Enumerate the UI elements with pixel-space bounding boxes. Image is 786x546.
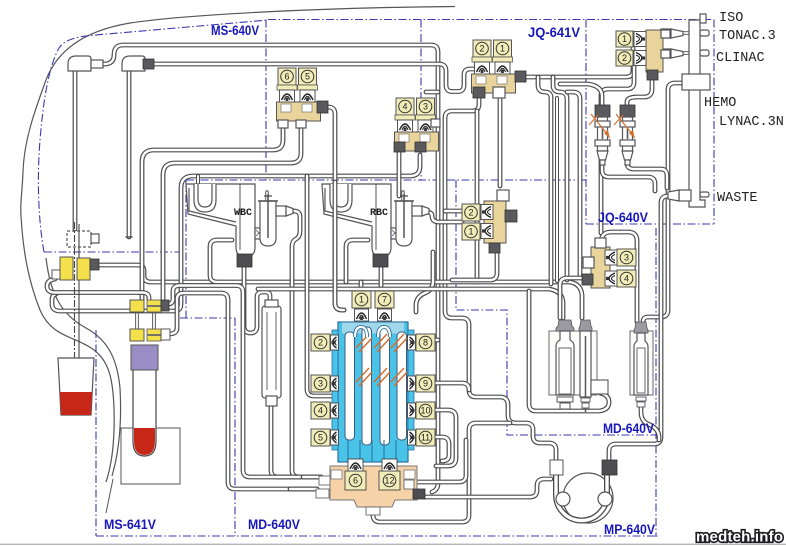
wire JQ641 drop to run282 (475, 111, 480, 282)
MD-640V manifold blue block (338, 322, 408, 462)
MD valve 8 (416, 334, 435, 351)
wire elbow1 down to carriage (73, 71, 78, 229)
elbow fitting E1 (68, 56, 91, 71)
svg-text:6: 6 (353, 476, 358, 486)
metering loops (355, 327, 367, 337)
svg-text:medteh.info: medteh.info (696, 529, 783, 546)
wire bundle b (567, 92, 580, 275)
test tube (133, 369, 156, 456)
syringe A (556, 320, 574, 331)
sample fitting yellow (52, 270, 61, 279)
wire sample connector to run282 (98, 265, 210, 282)
pump right connector (602, 460, 617, 475)
wire stub into WBC chamber top (196, 176, 200, 185)
white metering slots (345, 332, 355, 440)
CLINAC stub (700, 50, 709, 56)
sample probe line (74, 222, 76, 408)
group box MD-640V (186, 179, 586, 181)
WBC drain connector (237, 254, 252, 267)
wire WBC feed run282 (210, 240, 582, 318)
valve65 side connector (317, 101, 328, 113)
wire valve65 port1 to MS641 fitting1 (142, 125, 283, 300)
wire valve8 stub (431, 338, 438, 343)
wire valve1 top feed (359, 282, 364, 291)
WASTE fitting (679, 190, 691, 201)
MD valve 7 (375, 291, 394, 308)
wire top run 2 into JQ641 valve (153, 64, 474, 92)
wire CLINAC feed (663, 51, 690, 55)
tube cap purple (131, 345, 158, 370)
MD valve 5 (311, 429, 330, 446)
RBC counting chamber (322, 184, 391, 256)
solenoid valve pair JQ-640V 1/2 (646, 30, 663, 72)
probe carriage dashed (67, 231, 91, 247)
svg-text:JQ-641V: JQ-641V (528, 25, 580, 40)
wire bundle d (555, 98, 559, 281)
RBC transfer port (391, 228, 400, 239)
wire JQ640 valve34 top to valve2 (601, 56, 646, 233)
wire RBC drain to valve7 (379, 267, 384, 290)
svg-text:3: 3 (318, 379, 323, 389)
wire valve65 port2 to MS641 fitting1 (163, 125, 301, 300)
svg-text:1: 1 (622, 34, 627, 44)
wire base to pump (424, 479, 551, 497)
wire valve65 connector down to MD block (327, 107, 344, 310)
MD valve 6 (345, 471, 366, 490)
WBC mixing cylinder (260, 201, 276, 246)
CLINAC fitting (661, 49, 671, 58)
svg-text:MP-640V: MP-640V (604, 522, 655, 537)
single syringe (634, 322, 648, 333)
svg-text:7: 7 (382, 295, 387, 305)
filter F2 (620, 105, 635, 117)
RBC mixing cylinder (396, 201, 412, 246)
solenoid valve pair JQ-641V 2/1 (473, 40, 491, 57)
wire cylinder drain (271, 406, 300, 477)
svg-text:3: 3 (624, 253, 629, 263)
wire valve10 loop (431, 410, 456, 466)
wire sample loop to fitting1 (47, 279, 149, 300)
wire base tab line up (415, 440, 466, 482)
pump roller right (598, 492, 612, 506)
svg-text:4: 4 (624, 274, 629, 284)
wire waste line down to pump right (609, 196, 668, 461)
machine cover outline curve (21, 7, 455, 483)
HEMO fitting (682, 74, 710, 90)
WASTE stub (700, 192, 709, 197)
svg-text:3: 3 (423, 102, 428, 112)
wire MS641 fitting2 to base (169, 293, 317, 489)
orange flow arrow F1 (591, 114, 608, 135)
pump roller left (556, 492, 570, 506)
svg-text:HEMO: HEMO (704, 96, 736, 111)
wire JQ640 connector to filter2 (627, 79, 652, 107)
elbow fitting E2 (122, 56, 145, 71)
svg-text:12: 12 (384, 476, 394, 486)
svg-text:5: 5 (318, 433, 323, 443)
single syringe holder (630, 331, 653, 395)
WBC transfer port (255, 228, 264, 239)
TONAC stub (700, 30, 709, 36)
svg-text:1: 1 (359, 295, 364, 305)
wire stub valve43 feed (426, 90, 438, 95)
orange transfer arrows (356, 334, 369, 348)
wire single syringe merge to waste line (641, 408, 659, 440)
wire MS641 fitting1 to base (168, 286, 321, 478)
border frame bottom (0, 543, 786, 545)
wire TONAC feed (663, 31, 690, 35)
syringe pair side fitting (591, 380, 608, 394)
svg-text:5: 5 (305, 72, 310, 82)
wire fitting1-fitting2 stub a (135, 312, 139, 329)
svg-text:MS-640V: MS-640V (211, 23, 259, 38)
wire HEMO line down to syringe (643, 83, 682, 322)
filter F1 (595, 105, 610, 117)
TONAC fitting (661, 29, 671, 38)
solenoid valve pair MS-640V 4/3 (396, 98, 414, 115)
svg-text:8: 8 (423, 338, 428, 348)
wire run289 to syringe (258, 289, 563, 318)
WBC cylinder fitting (276, 206, 286, 216)
svg-text:TONAC.3: TONAC.3 (719, 29, 776, 44)
svg-text:MS-641V: MS-641V (104, 517, 156, 532)
svg-text:RBC: RBC (370, 208, 388, 219)
orange flow arrow F2 (616, 114, 633, 135)
svg-text:MD-640V: MD-640V (603, 421, 654, 436)
svg-text:1: 1 (500, 44, 505, 54)
svg-text:JQ-640V: JQ-640V (598, 210, 648, 225)
MS641 fitting1 (130, 300, 144, 312)
svg-text:2: 2 (318, 338, 323, 348)
solenoid valve pair 2/1 mid (484, 201, 506, 243)
MD-640V base manifold (330, 466, 417, 507)
svg-text:10: 10 (420, 406, 430, 416)
svg-text:ISO: ISO (719, 11, 743, 26)
wire run drop U to syringe fitting (529, 291, 609, 411)
metering syringe pair holder (549, 331, 597, 395)
wire RBC feed elbow (346, 240, 368, 282)
wire mid valve left1 (445, 209, 462, 214)
wire drop into MD block left (307, 176, 334, 396)
MD valve 9 (416, 375, 435, 392)
wire WBC cyl top stub (265, 192, 268, 200)
svg-text:CLINAC: CLINAC (716, 51, 765, 66)
wire fitting1-fitting2 stub b (152, 312, 156, 329)
wire join (303, 475, 321, 480)
wire RBC cyl top stub (401, 192, 404, 200)
group box JQ-640V (585, 20, 587, 225)
wire valve43 port to RBC cylinder (397, 151, 402, 196)
ISO port (700, 14, 706, 23)
solenoid valve pair MS-640V 6/5 (278, 68, 296, 85)
wire WBC cyl down to base run (292, 211, 300, 477)
svg-text:9: 9 (423, 379, 428, 389)
wire valve34 top to single syringe (601, 232, 637, 322)
wire S-tube into block top right (416, 252, 433, 312)
MS641 fitting2 (130, 329, 144, 341)
RBC cylinder fitting (412, 206, 422, 216)
solenoid valve pair JQ-640V 3/4 (591, 247, 610, 288)
waste/reagent manifold column (689, 20, 705, 207)
group box MS-640V (38, 20, 268, 252)
wire RBC cyl to mid valve (423, 212, 462, 222)
svg-text:4: 4 (318, 406, 323, 416)
group box JQ-641V (420, 20, 422, 181)
wire mid valve bottom to run (452, 250, 497, 280)
wire valve9 to run (431, 383, 469, 390)
JQ641 connectors (515, 71, 526, 82)
wire top run 1 down to MD base (103, 45, 438, 492)
svg-text:2: 2 (479, 44, 484, 54)
syringe B (579, 320, 592, 331)
bottom dashed boundary (96, 535, 658, 537)
wire valve65 drop overlay segment (335, 182, 344, 310)
wire JQ641 right connector to JQ640 valve1 (523, 38, 646, 77)
MD valve 1 (352, 291, 371, 308)
isolation chamber cylinder (262, 306, 281, 398)
sampler arm curve (46, 258, 121, 476)
svg-text:WASTE: WASTE (717, 191, 758, 206)
MD valve 2 (311, 334, 330, 351)
MD valve 3 (311, 375, 330, 392)
wire filter1 feed arc (560, 84, 602, 107)
wire filter2 drain (627, 162, 667, 188)
svg-text:2: 2 (622, 53, 627, 63)
blood in tube (134, 428, 155, 455)
wire valve43 port to sample loop (52, 155, 420, 311)
valve43 connectors (394, 142, 405, 152)
wire join (290, 487, 317, 492)
wire elbow2 down vent (127, 71, 132, 237)
wire bundle a (553, 77, 567, 280)
RBC drain connector (373, 254, 388, 267)
peristaltic pump MP-640V (563, 473, 613, 523)
svg-text:11: 11 (421, 433, 430, 443)
svg-text:2: 2 (468, 208, 473, 218)
svg-text:1: 1 (468, 227, 473, 237)
MD valve 12 (379, 471, 400, 490)
pump left connector (550, 460, 563, 475)
svg-text:LYNAC.3N: LYNAC.3N (719, 115, 784, 130)
wire valve34 connector to syringe pair (560, 278, 583, 318)
wire pump tubing cradle (556, 472, 607, 521)
wire JQ641 center stub down to mid valve (498, 95, 503, 186)
svg-text:MD-640V: MD-640V (248, 517, 300, 532)
pointer line to MS-641V (106, 479, 113, 513)
svg-text:4: 4 (402, 102, 407, 112)
channel lines (347, 440, 349, 461)
rinse beaker with red liquid (58, 358, 94, 415)
wire WBC drain U into cylinder (244, 267, 270, 333)
wire JQ641 loop to pump inlet (445, 95, 556, 462)
MD valve 10 (416, 402, 435, 419)
wire filter1 drain (602, 162, 655, 191)
svg-text:WBC: WBC (234, 208, 252, 219)
svg-text:6: 6 (284, 72, 289, 82)
wire bundle c (538, 77, 551, 284)
wire base U up to pump corridor (373, 423, 510, 522)
MD valve 11 (416, 429, 435, 446)
group box MS-641V (95, 330, 97, 536)
WBC counting chamber (186, 184, 255, 256)
wire valve11 loop (431, 437, 449, 461)
MD valve 4 (311, 402, 330, 419)
tube holder box (121, 428, 180, 484)
